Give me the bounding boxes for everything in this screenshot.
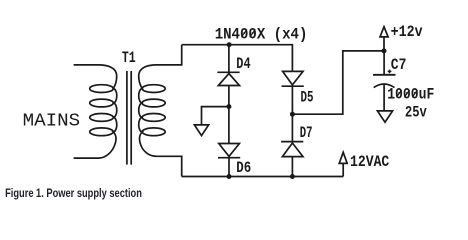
diode D4 triangle: [218, 74, 239, 86]
wire D7 to bottom rail: [291, 157, 293, 177]
svg-text:D5: D5: [301, 89, 314, 107]
transformer T1 primary loop 1: [90, 85, 114, 93]
slashed zeros of 1N400X: [241, 29, 255, 37]
wire +12v stub: [383, 37, 385, 51]
transformer T1 secondary loop 3: [142, 114, 165, 122]
slashed zeros of 1000uF: [396, 90, 417, 97]
transformer T1 core line right: [130, 71, 132, 165]
wire D5 to positive node: [291, 86, 293, 141]
svg-text:D4: D4: [236, 55, 250, 73]
svg-text:D7: D7: [300, 124, 313, 142]
wire D4 to D6 column: [228, 86, 230, 144]
capacitor C7 curved bottom plate: [374, 84, 395, 88]
wire D4 cathode column: [228, 45, 230, 73]
svg-text:Figure 1. Power supply section: Figure 1. Power supply section: [5, 188, 142, 200]
transformer T1 primary loop 3: [90, 114, 114, 122]
transformer T1 secondary winding wire with step connections: [139, 45, 182, 177]
svg-text:1000uF: 1000uF: [387, 86, 434, 104]
svg-text:12VAC: 12VAC: [350, 153, 389, 171]
wire bottom AC rail: [182, 176, 344, 178]
junction node positive: [290, 112, 295, 117]
junction node +12v: [382, 48, 387, 53]
junction node bottom rail left: [227, 174, 232, 179]
diode D7 cathode bar: [281, 141, 303, 143]
diode D6 triangle: [219, 144, 240, 157]
transformer T1 core line left: [126, 71, 128, 165]
capacitor C7 top plate: [373, 74, 396, 76]
junction node bottom rail right: [290, 174, 295, 179]
ground arrow (negative rail): [194, 125, 208, 136]
arrow 12VAC up: [339, 152, 347, 163]
wire capacitor to ground: [383, 84, 385, 111]
svg-text:C7: C7: [391, 56, 407, 74]
diode D5 cathode bar: [282, 85, 304, 87]
wire 12VAC stub: [342, 163, 344, 176]
diode D6 cathode bar: [218, 157, 240, 159]
wire negative node stub: [202, 107, 229, 125]
capacitor C7 plus sign: [388, 70, 392, 74]
diode D7 triangle: [282, 143, 303, 157]
wire top AC rail: [182, 45, 293, 72]
junction node top rail: [227, 42, 232, 47]
transformer T1 primary winding wire: [74, 65, 117, 158]
svg-text:1N400X (x4): 1N400X (x4): [215, 26, 308, 44]
svg-text:T1: T1: [122, 49, 136, 67]
diode D4 cathode bar: [217, 71, 239, 73]
svg-text:+12v: +12v: [391, 23, 424, 41]
arrow +12v up: [380, 27, 388, 37]
transformer T1 secondary loop 1: [142, 85, 165, 93]
transformer T1 secondary loop 2: [142, 99, 165, 107]
ground arrow below C7: [377, 111, 392, 122]
diode D5 triangle: [283, 71, 303, 85]
transformer T1 primary loop 2: [90, 99, 114, 107]
transformer T1 primary loop 4: [90, 128, 114, 136]
wire positive node to capacitor: [292, 51, 384, 114]
junction node negative: [226, 104, 231, 109]
transformer T1 secondary loop 4: [142, 128, 165, 136]
svg-text:25v: 25v: [405, 103, 428, 121]
svg-text:D6: D6: [236, 159, 251, 177]
wire to capacitor C7 top plate: [383, 51, 385, 75]
wire D6 to bottom rail: [228, 158, 230, 177]
svg-text:MAINS: MAINS: [23, 112, 80, 132]
